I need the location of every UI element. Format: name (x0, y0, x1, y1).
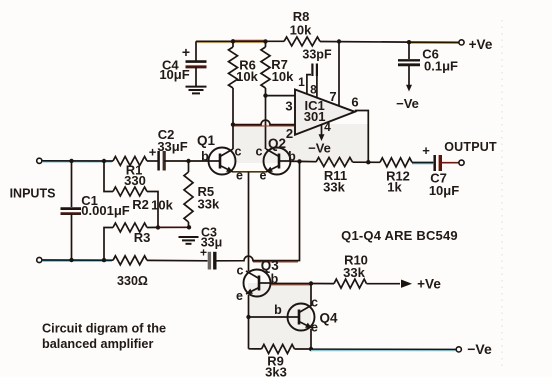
svg-text:0.001μF: 0.001μF (81, 203, 129, 218)
wire Q4 base (249, 316, 288, 318)
svg-text:33pF: 33pF (302, 48, 332, 62)
wire Q3 base tint (271, 284, 310, 286)
wire pin2 input with hop over R7 (233, 120, 295, 125)
wire input top a (42, 160, 113, 162)
wire Q4 emitter down (310, 329, 312, 349)
svg-text:3: 3 (285, 98, 292, 113)
wire pin8 (316, 76, 318, 98)
junction R6 top rail (231, 39, 235, 43)
faint page margin dotted line (501, 20, 503, 370)
svg-text:3k3: 3k3 (265, 365, 287, 377)
wire C6 top (408, 42, 410, 59)
svg-text:10k: 10k (151, 198, 173, 213)
junction C1 bottom (69, 258, 73, 262)
svg-text:b: b (274, 303, 282, 317)
wire Q2 base to node (291, 160, 301, 162)
arrow C6 -Ve (406, 85, 412, 92)
wire +Ve top rail left segment (196, 40, 284, 42)
resistor R5 (184, 172, 193, 222)
junction R2 R3 (156, 225, 160, 229)
wire C6 bottom (408, 65, 410, 86)
wire Q4 collector up (310, 284, 312, 306)
ground R2 R3 R5 (179, 237, 199, 244)
terminal input bottom (37, 257, 42, 262)
svg-text:+: + (182, 44, 190, 60)
resistor R12 (380, 158, 412, 167)
wire C1 bottom (71, 214, 73, 260)
terminal -Ve bottom (456, 347, 461, 352)
capacitor C3 (209, 252, 214, 270)
arrow pin4 -Ve (319, 134, 325, 141)
wire pin6 output (355, 111, 369, 163)
svg-text:e: e (236, 169, 243, 183)
wire R5 bottom (188, 222, 190, 227)
junction ground node (187, 225, 191, 229)
svg-text:c: c (235, 145, 242, 159)
wire input right tint (253, 261, 298, 263)
junction pin6 output line (366, 160, 370, 164)
svg-text:OUTPUT: OUTPUT (444, 140, 497, 154)
resistor R9 (262, 345, 295, 354)
wire -Ve line tint (311, 350, 456, 352)
svg-text:33k: 33k (343, 265, 365, 280)
svg-text:2: 2 (286, 126, 293, 141)
svg-text:Q1-Q4 ARE BC549: Q1-Q4 ARE BC549 (341, 228, 458, 243)
wire 330ohm to C3 (147, 259, 208, 261)
junction R5 top (186, 159, 190, 163)
wire R3 right (147, 226, 158, 228)
wire node to R11 (300, 160, 317, 162)
svg-text:33μF: 33μF (157, 139, 187, 154)
junction R3 bottom (102, 258, 106, 262)
terminal +Ve top right (459, 40, 464, 45)
junction C1 top (69, 159, 73, 163)
wire C4 to rail (195, 41, 197, 60)
svg-text:+Ve: +Ve (469, 37, 493, 52)
svg-text:b: b (201, 150, 209, 164)
svg-text:10k: 10k (290, 23, 312, 38)
svg-text:+: + (422, 143, 430, 158)
wire R3 left (104, 228, 113, 261)
wire R2 left (104, 161, 113, 192)
wire R9 left (249, 348, 262, 350)
svg-text:1k: 1k (387, 180, 402, 195)
svg-text:4: 4 (324, 120, 331, 134)
wire R2 right (147, 192, 158, 228)
wire tail down to Q3 (248, 172, 250, 271)
svg-text:301: 301 (304, 109, 326, 124)
resistor R6 (229, 47, 238, 88)
paper shading Q3/Q4 area (248, 283, 311, 349)
svg-text:c: c (256, 145, 263, 159)
wire emitters join (233, 171, 266, 173)
wire input bottom a (42, 259, 113, 261)
junction pin7 rail (337, 39, 341, 43)
svg-text:Q3: Q3 (261, 258, 280, 273)
svg-text:−Ve: −Ve (396, 96, 419, 111)
op-amp U1 IC1 301 triangle (295, 90, 355, 135)
svg-text:Circuit digram of the: Circuit digram of the (42, 321, 166, 335)
svg-text:10k: 10k (272, 69, 294, 84)
wire pin3 input (266, 95, 296, 97)
svg-text:R2: R2 (132, 197, 149, 212)
svg-text:e: e (260, 169, 267, 183)
wire +Ve top rail tint (409, 42, 459, 44)
svg-text:e: e (236, 289, 243, 303)
wire C1 top (71, 161, 73, 207)
svg-text:Q1: Q1 (197, 133, 216, 148)
ground C4 (186, 87, 207, 94)
wire R7 top (265, 41, 267, 47)
svg-text:Q2: Q2 (268, 136, 286, 151)
svg-text:10k: 10k (236, 69, 258, 84)
wire R10 right (367, 283, 401, 285)
wire pin2 tint (234, 125, 294, 127)
transistor Q3 (244, 270, 271, 297)
svg-text:+Ve: +Ve (417, 277, 441, 292)
svg-text:−Ve: −Ve (308, 141, 331, 156)
wire +Ve top rail mid segment (320, 41, 409, 44)
transistor Q2 (264, 148, 291, 175)
resistor R7 (261, 47, 270, 88)
capacitor 33pF (312, 64, 317, 77)
wire R12 to C7 (412, 162, 433, 164)
resistor R1 (113, 157, 147, 166)
terminal input top (37, 158, 42, 163)
wire R5 top (188, 161, 190, 172)
junction R7 pin3 (263, 93, 267, 97)
wire R12 to C7 tint (412, 163, 433, 165)
junction Q4 base tap (246, 315, 250, 319)
svg-text:7: 7 (329, 89, 336, 104)
junction R6 pin2 (231, 122, 235, 126)
svg-text:10μF: 10μF (429, 183, 459, 198)
svg-text:330Ω: 330Ω (117, 274, 148, 288)
wire R6 top (232, 41, 234, 47)
wire +Ve top rail left tint (197, 42, 264, 44)
wire R11 to R12 (353, 161, 381, 163)
junction R2 top (102, 159, 106, 163)
capacitor C1 (61, 209, 82, 214)
svg-text:balanced amplifier: balanced amplifier (42, 337, 153, 351)
svg-text:33k: 33k (323, 180, 345, 195)
transistor Q1 (209, 148, 236, 175)
svg-text:6: 6 (351, 95, 358, 110)
wire pin4 (321, 125, 323, 136)
wire C3 to Q2 base with hop over tail (215, 162, 300, 261)
svg-text:33k: 33k (198, 197, 220, 212)
svg-text:Q4: Q4 (319, 311, 338, 326)
svg-text:−Ve: −Ve (467, 341, 492, 357)
resistor R2 (113, 187, 147, 196)
transistor Q4 (288, 304, 315, 331)
paper shading under op-amp area (233, 124, 368, 163)
svg-text:c: c (237, 264, 244, 278)
wire +Ve top rail right segment (409, 41, 459, 43)
resistor 330ohm (113, 256, 147, 265)
arrow +Ve R10 (401, 280, 412, 288)
wire pin7 to rail (338, 42, 340, 107)
resistor R11 (316, 158, 353, 167)
wire -Ve line (311, 348, 456, 350)
wire C4 to ground (195, 67, 197, 86)
wire R10 left (311, 283, 334, 285)
svg-text:c: c (311, 296, 318, 310)
svg-text:1: 1 (298, 75, 305, 89)
junction R7 top rail (263, 39, 267, 43)
capacitor C2 (159, 151, 165, 171)
terminal OUTPUT (459, 160, 464, 165)
junction Q3 base R10 (309, 281, 313, 285)
svg-text:INPUTS: INPUTS (10, 187, 56, 201)
svg-text:8: 8 (310, 83, 317, 97)
wire input top tint (42, 161, 112, 163)
capacitor C7 (435, 155, 441, 171)
wire R7 bottom to Q2 collector (265, 88, 267, 149)
wire R6 bottom to Q1 collector (232, 88, 234, 149)
svg-text:0.1μF: 0.1μF (424, 59, 458, 74)
junction Q4 emitter -Ve line (309, 347, 313, 351)
wire pin1 (307, 75, 311, 95)
svg-text:+: + (149, 145, 157, 160)
wire input bottom tint (42, 260, 112, 262)
svg-text:R3: R3 (134, 230, 151, 245)
resistor R3 (113, 223, 147, 232)
svg-text:10μF: 10μF (159, 67, 189, 82)
wire C2 to Q1 base (164, 160, 208, 162)
wire R9 right (295, 348, 312, 350)
wire Q3 base (271, 283, 312, 285)
junction Q2 base feedback node (297, 159, 301, 163)
resistor R10 (334, 279, 367, 288)
junction C6 rail (407, 40, 411, 44)
capacitor C6 (398, 60, 420, 65)
svg-text:e: e (311, 321, 318, 335)
svg-text:33μ: 33μ (201, 236, 223, 250)
wire C7 to output terminal (440, 162, 459, 164)
wire R1 to C2 (147, 160, 158, 162)
wire rail R6-R7 tint (234, 39, 264, 41)
resistor R8 (284, 37, 320, 46)
wire Q3 emitter down (248, 295, 250, 349)
wire to ground node (158, 226, 189, 228)
capacitor C4 (186, 62, 207, 67)
